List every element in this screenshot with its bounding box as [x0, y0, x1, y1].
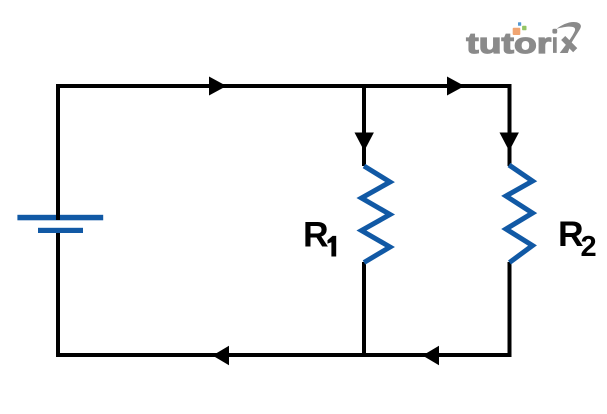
label R1 subscript 1 [328, 236, 337, 257]
resistor R1 (zigzag) [362, 166, 391, 263]
tutorix logo: blue square [518, 22, 521, 26]
tutorix logo: green square [522, 26, 526, 31]
tutorix logo: orange square [513, 28, 521, 35]
arrow: return current on bottom wire (left section, pointing left) [213, 346, 230, 365]
wire: R1 branch bottom lead [362, 262, 366, 355]
svg-text:R: R [303, 215, 329, 255]
arrow: current direction on top wire (right section, pointing right) [447, 77, 465, 96]
svg-text:tutor: tutor [466, 28, 551, 60]
resistor R2 (zigzag) [506, 165, 533, 263]
wire: battery negative lead + bottom horizontal + R2 bottom lead [58, 233, 510, 355]
arrow: current into R2 (pointing down) [500, 133, 519, 152]
battery V1: positive plate (long bar) [17, 215, 103, 221]
arrow: current direction on top wire (left section, pointing right) [209, 77, 227, 96]
tutorix logo: stylized x swoosh (curved slash) [557, 22, 581, 53]
tutorix logo: letter i dot [552, 29, 557, 34]
arrow: return current on bottom wire (right section, pointing left) [423, 346, 440, 365]
wire: left vertical + top horizontal + right vertical down to R2 [58, 86, 510, 220]
tutorix logo: stylized x backslash stroke [563, 38, 575, 50]
arrow: current into R1 (pointing down) [355, 133, 374, 152]
tutorix logo: letter i stem [553, 37, 557, 53]
wire: R1 branch top lead [362, 86, 366, 166]
battery V1: negative plate (short bar) [38, 228, 83, 233]
